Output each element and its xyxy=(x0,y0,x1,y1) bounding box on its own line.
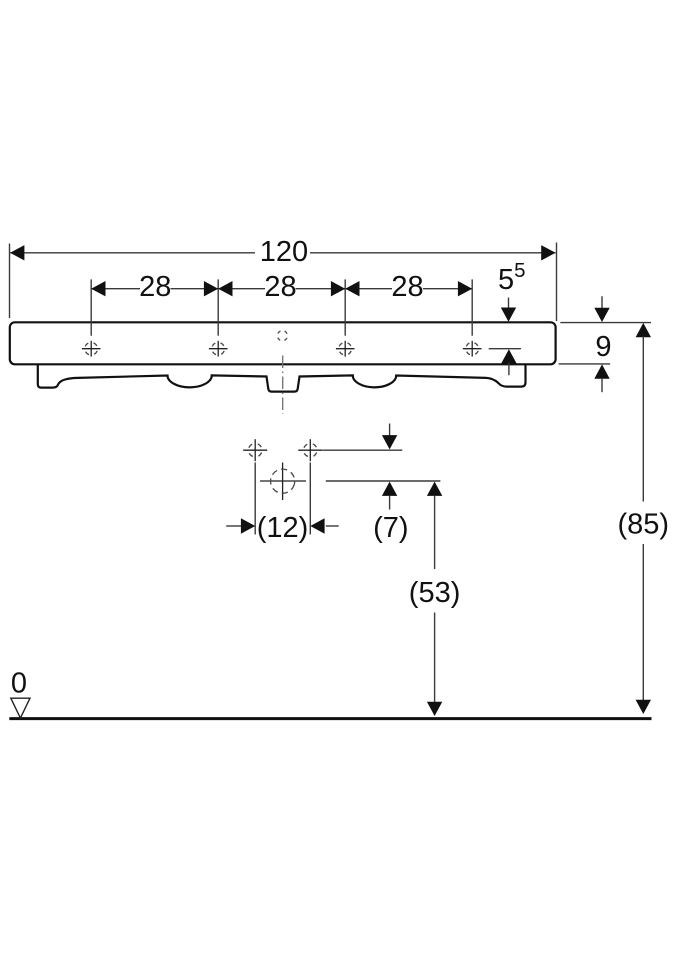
svg-text:55: 55 xyxy=(498,259,526,296)
svg-text:(53): (53) xyxy=(409,577,461,609)
svg-text:(12): (12) xyxy=(257,512,309,544)
svg-text:9: 9 xyxy=(595,331,611,363)
svg-text:(85): (85) xyxy=(618,509,670,541)
svg-text:28: 28 xyxy=(139,271,171,303)
svg-text:28: 28 xyxy=(264,271,296,303)
svg-text:120: 120 xyxy=(260,236,308,268)
svg-text:28: 28 xyxy=(391,271,423,303)
svg-text:0: 0 xyxy=(11,668,27,700)
svg-text:(7): (7) xyxy=(373,512,408,544)
